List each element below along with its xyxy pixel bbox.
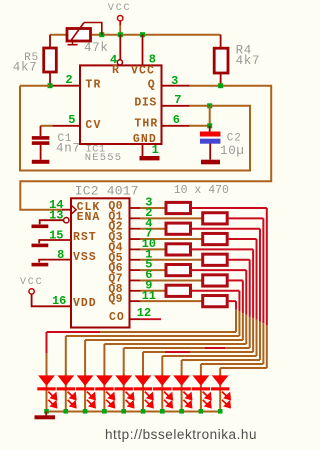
op-amp/timer IC1 NE555 box xyxy=(80,65,162,144)
pin 11 stub Q9 xyxy=(130,300,141,302)
resistor 470 #8 xyxy=(203,275,228,286)
svg-text:1: 1 xyxy=(152,143,159,157)
svg-text:RST: RST xyxy=(73,231,97,244)
ground (RST) xyxy=(32,244,49,248)
value label 4n7 xyxy=(56,141,81,155)
svg-text:VSS: VSS xyxy=(73,251,97,264)
pin 1 GND xyxy=(133,133,157,156)
wire Q3 to resistor xyxy=(140,238,202,240)
svg-text:10µ: 10µ xyxy=(220,144,245,158)
pin number 2 xyxy=(65,73,72,87)
node junction LED 2 cathode xyxy=(64,409,69,414)
wire Q5 to resistor xyxy=(140,259,202,261)
wire LED cathode rail xyxy=(47,411,221,413)
pin number 7 xyxy=(174,93,181,107)
svg-text:VDD: VDD xyxy=(73,297,97,310)
value label 10 x 470 xyxy=(174,184,229,197)
pin 7 DIS xyxy=(134,97,190,110)
capacitor C2 (electrolytic) xyxy=(200,132,221,160)
LED 10 xyxy=(211,374,230,412)
pin Q2 label xyxy=(108,221,122,234)
node junction LED 7 cathode xyxy=(160,409,165,414)
pin number 6 (Q7) xyxy=(145,268,152,282)
label C2 xyxy=(227,132,242,144)
wire resistor #9 to LED 2 xyxy=(66,291,240,377)
pin number 13 xyxy=(49,209,63,223)
power symbol VCC (top) xyxy=(108,3,131,35)
wire resistor #3 to LED 8 xyxy=(182,229,260,377)
wire Q0 to resistor xyxy=(140,207,166,209)
pin number 6 xyxy=(173,113,180,127)
wire TR to left rail xyxy=(50,85,53,87)
wire TR loop (left-down-right-up) xyxy=(20,86,250,171)
pin 6 stub Q7 xyxy=(130,279,141,281)
wire Q4 to resistor xyxy=(140,248,166,250)
LED 4 xyxy=(95,374,114,412)
svg-text:Q9: Q9 xyxy=(108,293,122,306)
node junction VCC-symbol/rail xyxy=(118,32,123,37)
svg-text:13: 13 xyxy=(49,209,63,223)
wire resistor #8 to LED 3 xyxy=(85,280,243,377)
pin number 14 xyxy=(49,198,63,212)
label R4 xyxy=(236,43,252,57)
pin number 5 (Q6) xyxy=(145,258,152,272)
svg-text:THR: THR xyxy=(134,117,158,130)
pin 13 ENA with bubble xyxy=(40,211,101,224)
wire resistor #7 to LED 4 xyxy=(104,270,246,377)
wire THR to C2 xyxy=(209,126,211,132)
ground (C2) xyxy=(201,160,220,165)
value label 4k7 (R4) xyxy=(236,54,261,68)
svg-text:5: 5 xyxy=(68,113,75,127)
pin number 8 xyxy=(149,53,156,67)
svg-text:4k7: 4k7 xyxy=(236,54,261,68)
svg-text:http://bsselektronika.hu: http://bsselektronika.hu xyxy=(105,427,257,442)
svg-text:15: 15 xyxy=(49,228,63,242)
pin 6 THR xyxy=(134,117,190,130)
node junction LED 6 cathode xyxy=(141,409,146,414)
LED 5 xyxy=(115,374,134,412)
pin Q4 label xyxy=(108,241,122,254)
pin number 1 xyxy=(152,143,159,157)
LED 3 xyxy=(76,374,95,412)
pin 1 stub Q5 xyxy=(130,259,141,261)
pin 12 CO xyxy=(109,311,161,324)
ground (LED rail) xyxy=(35,412,56,420)
svg-text:8: 8 xyxy=(149,53,156,67)
resistor R4 xyxy=(214,35,228,86)
ground (555 pin1) xyxy=(140,156,160,160)
pin 5 CV xyxy=(52,119,102,132)
resistor 470 #4 xyxy=(203,233,228,244)
wire Q6 to resistor xyxy=(140,269,166,271)
resistor 470 #2 xyxy=(203,213,228,224)
counter IC2 4017 box xyxy=(71,198,130,327)
pin 5 stub Q6 xyxy=(130,269,141,271)
pin number 15 xyxy=(49,228,63,242)
pin Q0 label xyxy=(108,200,122,213)
svg-text:4n7: 4n7 xyxy=(56,141,81,155)
wire Q8 to resistor xyxy=(140,290,166,292)
ground (VSS) xyxy=(32,263,49,267)
resistor R5 xyxy=(44,35,57,86)
pin 9 stub Q8 xyxy=(130,290,141,292)
pin Q6 label xyxy=(108,262,122,275)
pin 3 stub Q0 xyxy=(130,207,141,209)
pin number 11 (Q9) xyxy=(142,289,156,303)
svg-text:TR: TR xyxy=(85,79,101,92)
svg-text:ENA: ENA xyxy=(77,211,101,224)
wire Q1 to resistor xyxy=(140,217,202,219)
svg-text:2: 2 xyxy=(65,73,72,87)
LED 6 xyxy=(134,374,153,412)
ground (C1) xyxy=(32,160,50,164)
pin 10 stub Q4 xyxy=(130,248,141,250)
node junction pin8/rail xyxy=(140,32,145,37)
LED 9 xyxy=(192,374,211,412)
node junction LED 1 cathode xyxy=(44,409,49,414)
pin Q8 label xyxy=(108,283,122,296)
pin number 4 (Q2) xyxy=(145,216,152,230)
svg-text:VCC: VCC xyxy=(20,277,43,288)
svg-text:47k: 47k xyxy=(84,41,109,55)
wire THR to junction xyxy=(189,125,210,127)
trimmer potentiometer 47k xyxy=(67,23,102,45)
svg-text:4: 4 xyxy=(110,53,117,67)
pin number 3 xyxy=(171,74,178,88)
label IC1 xyxy=(86,143,106,155)
pin 8 VSS xyxy=(39,251,97,264)
svg-text:7: 7 xyxy=(174,93,181,107)
capacitor C1 xyxy=(32,136,50,160)
value label 47k xyxy=(84,41,109,55)
resistor 470 #5 xyxy=(166,244,191,255)
resistor 470 #1 xyxy=(166,202,191,213)
pin Q1 label xyxy=(108,210,122,223)
wire resistor #10 to LED 1 xyxy=(47,301,237,377)
svg-text:3: 3 xyxy=(171,74,178,88)
ground (ENA) xyxy=(32,225,49,229)
wire Q2 to resistor xyxy=(140,228,166,230)
svg-text:C2: C2 xyxy=(227,132,242,144)
resistor 470 #3 xyxy=(166,223,191,234)
svg-text:4k7: 4k7 xyxy=(13,61,38,75)
svg-text:CO: CO xyxy=(109,311,125,324)
LED 2 xyxy=(57,374,76,412)
wire resistor #5 to LED 6 xyxy=(143,249,253,377)
node junction LED 9 cathode xyxy=(199,409,204,414)
svg-text:DIS: DIS xyxy=(134,97,157,110)
svg-text:12: 12 xyxy=(137,306,151,320)
wire Q7 to resistor xyxy=(140,279,202,281)
svg-text:NE555: NE555 xyxy=(85,152,123,164)
svg-text:Q: Q xyxy=(148,79,156,92)
node junction THR xyxy=(207,123,212,128)
pin 4 stub Q2 xyxy=(130,228,141,230)
node junction DIS xyxy=(207,103,212,108)
pin 4 R (reset) with bubble xyxy=(112,35,122,77)
pin number 2 (Q1) xyxy=(145,206,152,220)
pin 3 Q xyxy=(148,79,190,92)
pin 15 RST xyxy=(39,231,97,244)
svg-text:8: 8 xyxy=(57,248,64,262)
node junction LED 4 cathode xyxy=(102,409,107,414)
node junction R5/TR xyxy=(48,83,53,88)
node junction LED 5 cathode xyxy=(121,409,126,414)
wire Q9 to resistor xyxy=(140,300,202,302)
wire DIS-THR vertical xyxy=(209,106,211,126)
pin number 7 (Q3) xyxy=(145,227,152,241)
pin number 3 (Q0) xyxy=(145,196,152,210)
pin Q7 label xyxy=(108,272,122,285)
pin Q5 label xyxy=(108,252,122,265)
wire VCC rail xyxy=(50,34,221,36)
wire resistor #2 to LED 9 xyxy=(201,218,263,377)
pin number 1 (Q5) xyxy=(145,247,152,261)
value label NE555 xyxy=(85,152,123,164)
wire CV to C1 xyxy=(41,126,54,136)
resistor 470 #7 xyxy=(166,265,191,276)
pin number 4 xyxy=(110,53,117,67)
value label 4k7 (R5) xyxy=(13,61,38,75)
wire Q output xyxy=(20,86,271,210)
label R5 xyxy=(24,52,39,64)
resistor 470 #6 xyxy=(203,254,228,265)
wire resistor #4 to LED 7 xyxy=(162,239,256,377)
pin 7 stub Q3 xyxy=(130,238,141,240)
pin number 12 xyxy=(137,306,151,320)
pin 2 TR xyxy=(52,79,102,92)
node junction pot-wiper/rail xyxy=(99,32,104,37)
node junction LED 3 cathode xyxy=(83,409,88,414)
wire resistor #6 to LED 5 xyxy=(124,260,250,377)
LED 1 xyxy=(37,374,56,412)
resistor 470 #9 xyxy=(166,285,191,296)
power symbol VCC (VDD) xyxy=(20,277,71,306)
svg-text:IC2 4017: IC2 4017 xyxy=(75,183,139,198)
label IC2 4017 xyxy=(75,183,139,198)
pin 2 stub Q1 xyxy=(130,217,141,219)
svg-text:10 x 470: 10 x 470 xyxy=(174,184,229,197)
value label 10u xyxy=(220,144,245,158)
pin number 9 (Q8) xyxy=(145,278,152,292)
pin number 16 xyxy=(52,294,66,308)
pin Q3 label xyxy=(108,231,122,244)
node junction LED 10 cathode xyxy=(218,409,223,414)
pin 14 CLK with clock triangle xyxy=(62,201,100,214)
LED 8 xyxy=(172,374,191,412)
wire resistor #1 to LED 10 xyxy=(191,208,267,377)
pin 16 VDD xyxy=(73,297,97,310)
label C1 xyxy=(58,133,73,145)
pin Q9 label xyxy=(108,293,122,306)
svg-text:CV: CV xyxy=(85,119,101,132)
pin number 5 xyxy=(68,113,75,127)
resistor 470 #10 xyxy=(203,296,228,307)
node junction R4/Q xyxy=(218,83,223,88)
wire DIS to junction xyxy=(189,105,210,107)
svg-text:6: 6 xyxy=(173,113,180,127)
pin number 8 (VSS) xyxy=(57,248,64,262)
pin number 10 (Q4) xyxy=(142,237,156,251)
svg-text:VCC: VCC xyxy=(108,3,131,14)
svg-text:16: 16 xyxy=(52,294,66,308)
pin 8 VCC xyxy=(131,35,155,78)
LED 7 xyxy=(153,374,172,412)
node junction LED 8 cathode xyxy=(179,409,184,414)
